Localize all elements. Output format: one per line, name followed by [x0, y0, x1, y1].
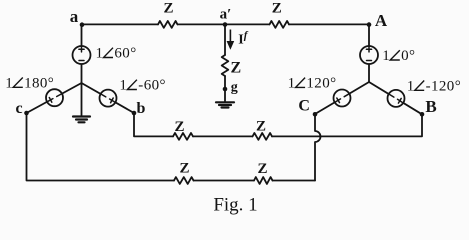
- svg-text:Z: Z: [256, 118, 266, 134]
- svg-text:120°: 120°: [306, 75, 336, 91]
- svg-text:A: A: [375, 11, 388, 30]
- svg-text:c: c: [15, 100, 22, 117]
- svg-text:1: 1: [96, 46, 104, 62]
- svg-text:-120°: -120°: [426, 78, 462, 94]
- svg-text:180°: 180°: [24, 75, 54, 91]
- svg-text:Z: Z: [163, 0, 173, 16]
- svg-text:0°: 0°: [401, 48, 415, 64]
- svg-text:1: 1: [407, 78, 415, 94]
- svg-text:-60°: -60°: [138, 78, 166, 94]
- svg-text:1: 1: [119, 78, 127, 94]
- svg-text:a′: a′: [220, 6, 232, 22]
- svg-text:g: g: [231, 80, 238, 95]
- svg-text:B: B: [425, 97, 436, 116]
- svg-text:Z: Z: [179, 161, 189, 177]
- svg-text:1: 1: [288, 75, 296, 91]
- svg-text:b: b: [137, 100, 146, 117]
- svg-text:Fig. 1: Fig. 1: [213, 194, 257, 215]
- svg-text:Z: Z: [272, 0, 282, 16]
- svg-text:Z: Z: [231, 60, 242, 77]
- svg-text:a: a: [70, 7, 79, 26]
- svg-text:Z: Z: [257, 161, 267, 177]
- svg-text:C: C: [298, 98, 310, 115]
- svg-text:1: 1: [5, 75, 13, 91]
- svg-text:1: 1: [382, 48, 390, 64]
- svg-text:Z: Z: [174, 119, 184, 135]
- svg-text:60°: 60°: [114, 46, 136, 62]
